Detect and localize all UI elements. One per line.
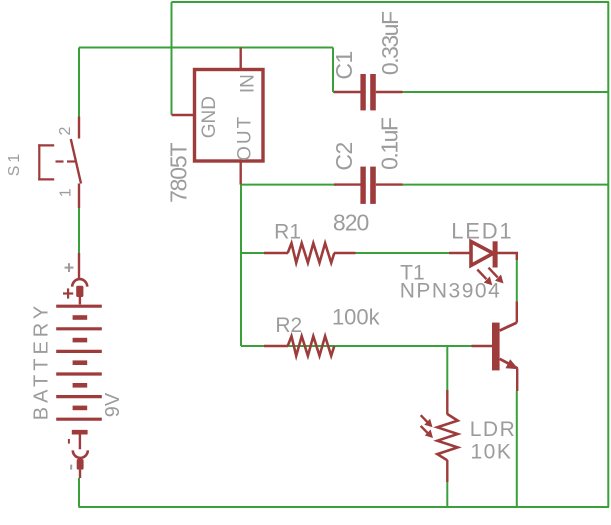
svg-text:100k: 100k (332, 305, 381, 330)
svg-text:R1: R1 (274, 221, 301, 244)
svg-text:9V: 9V (102, 392, 124, 417)
svg-text:OUT: OUT (234, 115, 255, 161)
svg-text:1: 1 (58, 188, 75, 197)
svg-text:10K: 10K (470, 440, 512, 463)
svg-text:820: 820 (333, 209, 369, 235)
svg-text:IN: IN (238, 74, 259, 93)
svg-text:LDR: LDR (470, 418, 517, 441)
svg-text:0.33uF: 0.33uF (377, 11, 403, 75)
svg-text:C1: C1 (331, 51, 357, 79)
svg-text:7805T: 7805T (166, 143, 192, 203)
svg-text:NPN3904: NPN3904 (400, 279, 502, 302)
svg-text:LED1: LED1 (451, 219, 513, 244)
svg-text:R2: R2 (275, 314, 302, 337)
svg-text:2: 2 (57, 126, 74, 135)
svg-text:C2: C2 (331, 142, 357, 170)
svg-text:BATTERY: BATTERY (31, 302, 53, 420)
svg-text:GND: GND (199, 96, 220, 138)
svg-text:0.1uF: 0.1uF (376, 117, 402, 170)
svg-text:S1: S1 (6, 151, 23, 177)
